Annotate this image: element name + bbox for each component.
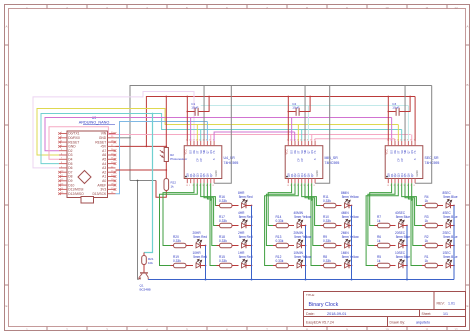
svg-text:S: S (212, 158, 216, 160)
IC U3 ARDUINO_NANO microcontroller (58, 116, 116, 203)
LED 1HR 5mm Red (238, 251, 253, 268)
wire bus drops to shift register pins (191, 86, 412, 142)
LED 1SEC 5mm Blue (443, 251, 458, 268)
svg-text:0.33k: 0.33k (323, 239, 331, 243)
svg-text:5mm Red: 5mm Red (239, 255, 253, 259)
svg-text:VCC: VCC (285, 149, 289, 155)
svg-text:CP: CP (300, 158, 304, 162)
svg-text:5mm Red: 5mm Red (239, 215, 253, 219)
svg-text:1k: 1k (377, 239, 381, 243)
wire clock distribution (faint cyan) (201, 105, 409, 107)
svg-text:TITLE:: TITLE: (306, 293, 315, 297)
wire net CYAN (D5) (41, 114, 402, 164)
wire Q7S link SR2 to SR3 (pink) (315, 139, 395, 141)
svg-text:1.01: 1.01 (448, 302, 455, 306)
LED 8HR 5mm Red (238, 191, 253, 208)
svg-text:S: S (413, 158, 417, 160)
svg-text:5mm Yellow: 5mm Yellow (342, 195, 360, 199)
LED 8MIN 5mm Yellow (341, 191, 359, 208)
wire LED column cathode drop (blue) (251, 206, 253, 280)
wire SR outputs to right LED column (green) (201, 183, 217, 265)
LED 20MIN 5mm Yellow (294, 231, 312, 248)
svg-text:B: B (466, 83, 468, 87)
resistor R20 0.33k (171, 235, 194, 248)
wire +5V rail (red) (116, 97, 416, 148)
wire SR outputs to right LED column (green) (402, 183, 422, 265)
resistor R6 1k (375, 235, 396, 248)
svg-text:11: 11 (425, 328, 428, 332)
junction cathode bus (351, 279, 353, 281)
svg-text:7S: 7S (212, 150, 216, 153)
svg-text:1k: 1k (171, 185, 175, 189)
wire net PINK (D3) (49, 127, 411, 160)
LED 10MIN 5mm Yellow (294, 251, 312, 268)
svg-text:D12/MISO: D12/MISO (68, 192, 84, 196)
transistor Q1 BC548B (139, 265, 151, 292)
wire SR outputs wrap to left LED column (green) (265, 183, 299, 265)
LED 4MIN 5mm Yellow (341, 211, 359, 228)
LED 10SEC 5mm Blue (395, 251, 410, 268)
IC MIN_SR 74HC595 shift register (285, 139, 340, 187)
wire SR outputs wrap to left LED column (green) (366, 183, 398, 265)
svg-text:10uF: 10uF (392, 106, 399, 110)
junction cathode bus (205, 279, 207, 281)
wire Q7S link SR1 to SR2 (magenta) (214, 132, 295, 141)
resistor R22 1k (164, 179, 176, 191)
wire MR tie SR3 (414, 97, 416, 142)
svg-text:74HC595: 74HC595 (325, 161, 340, 165)
wire SR3 GND return (415, 86, 432, 184)
wire +5V to photoresistor (165, 97, 167, 148)
wire net BLUE clock (D13/SCK) (116, 122, 208, 194)
svg-text:0.33k: 0.33k (219, 239, 227, 243)
svg-text:GND: GND (315, 170, 319, 176)
svg-text:0.33k: 0.33k (173, 239, 181, 243)
resistor R5 1k (375, 255, 396, 268)
svg-text:Q7: Q7 (310, 173, 314, 177)
svg-text:1k: 1k (425, 199, 429, 203)
svg-text:Date:: Date: (306, 312, 315, 316)
LED 8SEC 5mm Blue (443, 191, 458, 208)
wire net LAVENDER (D6) (33, 92, 194, 168)
wire VCC drop C1 area (186, 97, 188, 142)
LED 20SEC 5mm Blue (395, 231, 410, 248)
junction GND pin (129, 137, 131, 139)
wire VCC drop C2 area (287, 97, 289, 142)
svg-text:10uF: 10uF (191, 106, 198, 110)
LED 4SEC 5mm Blue (443, 211, 458, 228)
wire SR1 GND return (214, 86, 231, 184)
svg-text:0.33k: 0.33k (173, 259, 181, 263)
svg-text:12: 12 (454, 328, 458, 332)
resistor R14 0.33k (273, 215, 294, 228)
svg-text:0.33k: 0.33k (219, 259, 227, 263)
svg-text:MIN_SR: MIN_SR (325, 156, 339, 160)
resistor R11 0.33k (321, 195, 342, 208)
svg-text:CP: CP (199, 158, 203, 162)
svg-text:5mm Blue: 5mm Blue (396, 255, 411, 259)
capacitor C3 10uF (387, 96, 411, 116)
junction cathode bus (305, 279, 307, 281)
resistor R10 0.33k (321, 215, 342, 228)
resistor R13 0.33k (273, 235, 294, 248)
svg-text:1k: 1k (377, 259, 381, 263)
svg-text:EasyEDA V5.7.24: EasyEDA V5.7.24 (306, 320, 334, 324)
wire SR2 GND return (315, 86, 330, 184)
svg-text:5mm Red: 5mm Red (193, 235, 207, 239)
svg-text:0.33k: 0.33k (323, 259, 331, 263)
LED 2SEC 5mm Blue (443, 231, 458, 248)
svg-text:REV:: REV: (437, 302, 445, 306)
svg-text:VCC: VCC (184, 149, 188, 155)
svg-text:11: 11 (425, 6, 428, 10)
svg-text:1k: 1k (425, 239, 429, 243)
capacitor C1 10uF (186, 96, 210, 116)
svg-text:5mm Blue: 5mm Blue (443, 255, 458, 259)
svg-text:1/1: 1/1 (443, 312, 448, 316)
svg-text:5mm Yellow: 5mm Yellow (342, 215, 360, 219)
svg-text:Q7: Q7 (209, 173, 213, 177)
resistor R18 0.33k (217, 235, 239, 248)
resistor R15 0.33k (217, 255, 239, 268)
LED 1MIN 5mm Yellow (341, 251, 359, 268)
wire LDR to R22, tap to A3 (116, 162, 168, 179)
svg-text:0.33k: 0.33k (323, 219, 331, 223)
svg-text:D13/SCK: D13/SCK (92, 192, 107, 196)
LED 10HR 5mm Red (193, 251, 208, 268)
svg-text:2018-09-01: 2018-09-01 (327, 312, 346, 316)
svg-text:arquiteto: arquiteto (416, 320, 430, 324)
svg-text:B: B (5, 83, 7, 87)
svg-text:Q7: Q7 (410, 173, 414, 177)
svg-text:5mm Blue: 5mm Blue (443, 215, 458, 219)
wire GND rail (gray) (116, 86, 432, 181)
svg-text:0.33k: 0.33k (276, 259, 284, 263)
svg-text:GND: GND (214, 170, 218, 176)
svg-text:10: 10 (385, 6, 389, 10)
svg-text:ARDUINO_NANO: ARDUINO_NANO (79, 121, 110, 125)
wire cyan bus branch to R21 (144, 114, 153, 253)
svg-text:7S: 7S (313, 150, 317, 153)
LED 2HR 5mm Red (238, 231, 253, 248)
svg-text:1k: 1k (377, 219, 381, 223)
resistor R7 1k (375, 215, 396, 228)
svg-text:A: A (466, 25, 468, 29)
capacitor C2 10uF (287, 96, 311, 116)
svg-text:10uF: 10uF (292, 106, 299, 110)
svg-text:5mm Yellow: 5mm Yellow (342, 235, 360, 239)
svg-text:7S: 7S (413, 150, 417, 153)
LED 2MIN 5mm Yellow (341, 231, 359, 248)
resistor R1 1k (422, 255, 443, 268)
svg-text:1k: 1k (425, 259, 429, 263)
svg-text:Drawn By:: Drawn By: (390, 320, 406, 324)
svg-text:Binary Clock: Binary Clock (309, 302, 339, 308)
wire LED column cathode drop (blue) (305, 226, 307, 280)
svg-text:10: 10 (385, 328, 389, 332)
svg-text:5mm Blue: 5mm Blue (443, 235, 458, 239)
svg-text:10k: 10k (148, 261, 153, 265)
wire LED cathode bus (blue) (148, 279, 454, 281)
wire SR outputs to right LED column (green) (302, 183, 321, 265)
wire VCC drop C3 area (387, 97, 389, 142)
svg-text:5mm Blue: 5mm Blue (443, 195, 458, 199)
svg-text:GND: GND (415, 170, 419, 176)
resistor R19 0.33k (171, 255, 194, 268)
wire SR outputs wrap to left LED column (green) (160, 183, 198, 265)
svg-text:E: E (5, 304, 7, 308)
svg-text:5mm Yellow: 5mm Yellow (294, 255, 312, 259)
wire LED column cathode drop (blue) (406, 226, 408, 280)
svg-text:5mm Blue: 5mm Blue (396, 215, 411, 219)
title block (304, 292, 466, 327)
svg-text:0.33k: 0.33k (219, 199, 227, 203)
svg-text:E: E (466, 304, 468, 308)
wire LED column cathode drop (blue) (453, 206, 455, 280)
svg-text:0.33k: 0.33k (276, 219, 284, 223)
svg-text:BC548B: BC548B (140, 288, 151, 292)
junction cathode bus (251, 279, 253, 281)
svg-text:CP: CP (400, 158, 404, 162)
svg-text:5mm Blue: 5mm Blue (396, 235, 411, 239)
svg-text:U4_SR: U4_SR (224, 156, 236, 160)
resistor R2 Photoresistor LDR (160, 148, 187, 162)
LED 20HR 5mm Red (193, 231, 208, 248)
resistor R16 0.33k (217, 195, 239, 208)
wire net YELLOW latch (D4) (37, 109, 398, 156)
wire LED column cathode drop (blue) (351, 206, 353, 280)
LED 40MIN 5mm Yellow (294, 211, 312, 228)
resistor R9 0.33k (321, 235, 342, 248)
resistor R4 1k (422, 195, 443, 208)
svg-text:A: A (5, 25, 7, 29)
svg-text:0.33k: 0.33k (276, 239, 284, 243)
svg-text:0.33k: 0.33k (323, 199, 331, 203)
IC SEC_SR 74HC595 shift register (385, 139, 440, 187)
junction cyan branch (152, 113, 154, 115)
wire GND branch to Q1 emitter (138, 181, 139, 280)
svg-text:S: S (313, 158, 317, 160)
wire net MAGENTA data (D2) (45, 118, 392, 151)
wire R22 to ground return (156, 181, 166, 198)
resistor R3 1k (422, 215, 443, 228)
svg-text:5mm Red: 5mm Red (239, 195, 253, 199)
resistor R8 0.33k (321, 255, 342, 268)
wire LED column cathode drop (blue) (205, 246, 207, 280)
svg-text:5mm Red: 5mm Red (239, 235, 253, 239)
resistor R12 0.33k (273, 255, 294, 268)
svg-text:VCC: VCC (385, 149, 389, 155)
LED 4HR 5mm Red (238, 211, 253, 228)
svg-text:Photoresistor: Photoresistor (170, 157, 187, 161)
junction GND branch (137, 180, 139, 182)
resistor R2 1k (422, 235, 443, 248)
svg-text:5mm Yellow: 5mm Yellow (294, 235, 312, 239)
junction +5V at LDR (165, 96, 167, 98)
svg-text:Sheet:: Sheet: (422, 312, 432, 316)
svg-text:1k: 1k (425, 219, 429, 223)
IC U4_SR 74HC595 shift register (184, 139, 239, 187)
svg-text:0.33k: 0.33k (219, 219, 227, 223)
svg-text:5mm Yellow: 5mm Yellow (342, 255, 360, 259)
resistor R21 10k (142, 253, 154, 266)
junction cathode bus (406, 279, 408, 281)
svg-text:5mm Yellow: 5mm Yellow (294, 215, 312, 219)
svg-text:12: 12 (454, 6, 458, 10)
LED 40SEC 5mm Blue (395, 211, 410, 228)
resistor R17 0.33k (217, 215, 239, 228)
